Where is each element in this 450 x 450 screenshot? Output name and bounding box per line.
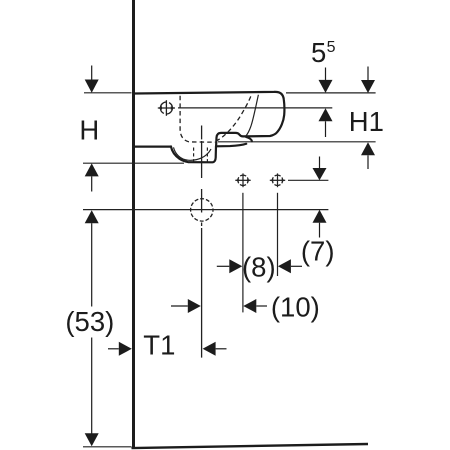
- svg-text:H1: H1: [349, 106, 384, 137]
- svg-text:5: 5: [311, 37, 326, 68]
- svg-text:(8): (8): [242, 252, 276, 283]
- svg-text:(7): (7): [301, 236, 335, 267]
- svg-text:H: H: [79, 114, 99, 145]
- svg-text:5: 5: [327, 39, 336, 56]
- svg-text:(53): (53): [65, 306, 114, 337]
- svg-text:T1: T1: [143, 329, 175, 360]
- svg-text:(10): (10): [271, 292, 320, 323]
